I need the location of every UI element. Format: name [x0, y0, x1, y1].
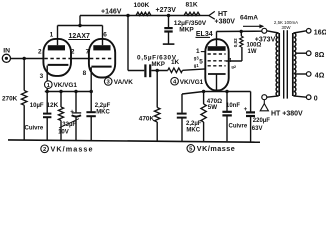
svg-text:VK/masse: VK/masse	[197, 144, 235, 153]
tube V1b envelope (12AX7 triode 2)	[89, 39, 115, 78]
capacitor 12uF/350V MKP	[163, 20, 207, 44]
resistor 270K	[2, 91, 27, 106]
wire V1b cathode lead	[90, 67, 92, 91]
wire cathode bus	[45, 91, 91, 93]
tube EL34 g1	[208, 65, 226, 67]
svg-text:2: 2	[71, 48, 75, 55]
svg-text:VA/VK: VA/VK	[114, 79, 133, 86]
svg-text:0: 0	[314, 96, 318, 103]
wire 470K to ground	[156, 122, 158, 141]
capacitor 220uF/63V	[244, 106, 271, 132]
wire to C 2.2uF MKC a	[90, 92, 92, 112]
terminal 16R	[306, 29, 311, 34]
label HT +380V	[215, 11, 236, 25]
transformer primary bottom terminal	[262, 95, 267, 100]
wire terminal to primary	[267, 31, 279, 33]
svg-text:MKP: MKP	[179, 26, 194, 33]
wire 270K to ground rail	[23, 105, 25, 140]
wire 2.2uF a to ground	[90, 116, 92, 140]
svg-text:220µF: 220µF	[253, 118, 270, 124]
svg-text:470K: 470K	[139, 115, 155, 122]
wire bus corner to C 220uF	[250, 92, 252, 112]
tube V1a cathode	[48, 64, 69, 66]
node cathode bus f	[225, 90, 228, 93]
wire to C 33uF	[75, 92, 77, 113]
capacitor 33uF/10V	[58, 109, 81, 136]
tube V1b grid	[90, 58, 114, 60]
wire V1a cathode lead	[46, 66, 48, 92]
transformer primary top terminal	[262, 28, 267, 33]
tube EL34 g3	[208, 53, 226, 55]
wire 12K to ground	[60, 121, 62, 141]
svg-text:10nF: 10nF	[226, 103, 240, 109]
transformer primary winding	[276, 33, 278, 96]
svg-text:HT: HT	[218, 11, 228, 18]
HT supply arrow	[209, 11, 215, 19]
svg-text:g2: g2	[231, 64, 236, 69]
input jack IN	[2, 48, 10, 63]
svg-text:10µF: 10µF	[30, 103, 44, 109]
capacitor 0.5uF/630V MKP	[137, 55, 177, 78]
svg-text:VK/masse: VK/masse	[51, 144, 93, 153]
svg-text:1: 1	[196, 48, 200, 55]
wire EL34 cathode lead	[216, 74, 218, 92]
label 12AX7	[68, 33, 90, 40]
svg-text:VK/VG1: VK/VG1	[180, 79, 204, 86]
wire secondary 0 tap	[293, 96, 306, 97]
pin 5 g1 label	[194, 59, 203, 68]
svg-text:8Ω: 8Ω	[315, 52, 325, 59]
wire input to grid	[11, 58, 44, 60]
svg-text:MKC: MKC	[186, 127, 200, 133]
svg-text:1: 1	[50, 32, 54, 39]
svg-text:2: 2	[38, 49, 42, 56]
svg-text:MKC: MKC	[96, 109, 110, 115]
transformer core	[283, 30, 285, 98]
wire bus to C 10nF	[226, 92, 228, 112]
svg-text:270K: 270K	[2, 96, 18, 103]
tube V1a envelope (12AX7 triode 1)	[43, 39, 71, 76]
svg-text:64mA: 64mA	[240, 15, 258, 22]
svg-text:+146V: +146V	[101, 8, 122, 15]
wire 220uF to ground	[250, 116, 252, 142]
wire EL34 anode riser	[216, 32, 218, 47]
svg-text:VK/VG1: VK/VG1	[54, 82, 78, 89]
resistor 100K	[134, 2, 152, 16]
svg-text:5W: 5W	[208, 104, 217, 111]
svg-text:5: 5	[199, 59, 203, 66]
transformer secondary winding	[294, 33, 296, 96]
wire rail mid	[151, 15, 200, 17]
svg-text:8: 8	[83, 70, 87, 77]
wire 10nF to ground	[226, 115, 228, 141]
wire grid node to R 470K	[156, 71, 158, 108]
label point 1 VK/VG1	[45, 81, 78, 89]
wire primary bottom to terminal	[267, 96, 279, 97]
ground rail	[8, 140, 260, 142]
wire cap to grid node	[151, 70, 168, 72]
terminal 0	[306, 95, 311, 100]
resistor 470R 5W	[201, 92, 222, 123]
svg-text:1W: 1W	[248, 49, 257, 55]
wire secondary 4R tap	[295, 73, 306, 75]
wire anode tie	[58, 25, 103, 27]
node cathode bus b	[59, 90, 62, 93]
node cathode bus a	[46, 90, 49, 93]
tube V1b cathode	[91, 66, 111, 68]
label point 4 VK/VG1	[171, 77, 204, 85]
node input junction	[23, 57, 26, 60]
tube EL34 envelope	[205, 39, 228, 90]
terminal 4R	[306, 72, 311, 77]
svg-text:+273V: +273V	[156, 7, 177, 14]
capacitor 10uF	[30, 103, 52, 117]
resistor 1K	[168, 59, 183, 72]
wire screen to g2 pin 4	[241, 47, 243, 61]
svg-text:7: 7	[86, 48, 90, 55]
svg-text:0,82: 0,82	[233, 38, 238, 47]
capacitor 10nF	[222, 103, 240, 116]
wire to C 10uF	[46, 92, 48, 113]
svg-text:16Ω: 16Ω	[314, 29, 326, 36]
wire junction down to R 270K	[23, 59, 25, 91]
svg-text:30W: 30W	[281, 25, 291, 30]
wire HT rail left	[80, 15, 151, 17]
svg-text:63V: 63V	[252, 126, 263, 132]
wire +273V to C 12uF	[168, 16, 170, 28]
terminal 8R	[306, 51, 311, 56]
node cathode bus e	[202, 90, 205, 93]
svg-text:100Ω: 100Ω	[247, 43, 262, 49]
tube EL34 cathode	[208, 73, 226, 75]
svg-text:Cuivre: Cuivre	[229, 124, 248, 130]
svg-text:HT +380V: HT +380V	[271, 111, 303, 118]
label point 5 VK/masse	[187, 144, 235, 153]
wire 1K to EL34 g1	[183, 69, 206, 70]
wire 10uF to ground	[46, 117, 48, 140]
tube V1a anode plate	[48, 45, 65, 50]
wire rail right to HT input	[200, 15, 209, 17]
tube EL34 anode plate	[208, 46, 226, 51]
svg-text:12K: 12K	[47, 102, 59, 109]
node anode tie	[78, 24, 81, 27]
svg-text:6: 6	[103, 32, 107, 39]
wire to R 12K	[60, 92, 62, 108]
svg-text:81K: 81K	[186, 1, 198, 8]
node +146V	[126, 14, 129, 17]
svg-text:Cuivre: Cuivre	[25, 126, 44, 132]
node +273V	[167, 14, 170, 17]
svg-text:+380V: +380V	[215, 19, 236, 26]
tube V1b anode plate	[93, 45, 110, 50]
svg-text:2,2µF: 2,2µF	[95, 103, 111, 109]
svg-text:g1: g1	[194, 63, 200, 68]
wire EL34 cathode bus	[204, 91, 251, 93]
resistor 100R 1W screen	[240, 32, 262, 56]
wire V1b anode riser	[102, 26, 104, 46]
svg-text:100K: 100K	[134, 2, 150, 9]
svg-text:10V: 10V	[58, 130, 69, 136]
tube V1a grid	[44, 58, 70, 60]
svg-text:1K: 1K	[171, 59, 180, 66]
wire 33uF to ground	[75, 118, 77, 141]
label transformer rating	[274, 20, 298, 30]
wire anode node down	[127, 16, 129, 71]
resistor 470K	[139, 108, 160, 123]
wire riser to HT rail	[79, 16, 81, 26]
resistor 81K	[184, 1, 200, 15]
wire 2.2uF b to ground	[181, 118, 183, 141]
label point 2 VK/masse	[41, 144, 93, 153]
wire 470R to ground	[203, 122, 205, 141]
wire secondary 8R tap	[295, 52, 306, 54]
svg-text:+373V: +373V	[255, 36, 276, 43]
svg-text:IN: IN	[3, 48, 10, 55]
HT feed arrow bottom	[260, 100, 268, 111]
pin 1 g3 label	[194, 48, 206, 60]
label point 3 VA/VK	[104, 78, 133, 86]
node cathode bus d	[90, 90, 93, 93]
wire V1a anode riser	[57, 26, 59, 46]
capacitor 2.2uF MKC b	[177, 114, 202, 134]
svg-text:4Ω: 4Ω	[315, 73, 325, 80]
wire secondary 16R tap	[293, 31, 306, 33]
wire grid link pin2-pin7	[70, 58, 90, 60]
node EL34 grid	[156, 69, 159, 72]
label EL34	[196, 31, 213, 38]
node cathode bus c	[74, 90, 77, 93]
wire anode to transformer	[217, 30, 262, 32]
tube EL34 g2	[208, 60, 226, 62]
resistor 12K	[47, 102, 64, 121]
capacitor 2.2uF MKC a	[86, 103, 110, 116]
wire bus to C 2.2uF b	[182, 92, 204, 95]
node screen tap	[240, 30, 243, 33]
svg-text:MKP: MKP	[152, 62, 165, 68]
label 64mA arrow	[240, 15, 264, 29]
svg-text:2,2µF: 2,2µF	[186, 121, 202, 127]
svg-text:3: 3	[40, 73, 44, 80]
